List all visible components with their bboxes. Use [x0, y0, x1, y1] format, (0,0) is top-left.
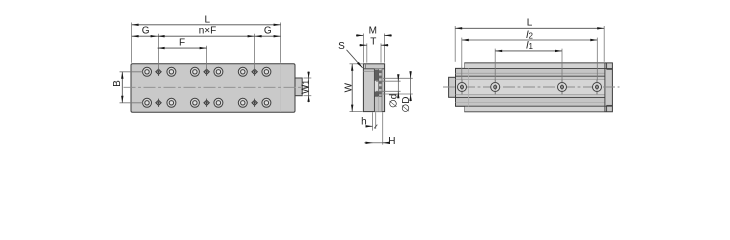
grease port diamond D3	[252, 100, 257, 105]
svg-text:T: T	[370, 36, 376, 47]
dimension lines, middle view	[347, 35, 411, 142]
dim h line	[367, 125, 373, 127]
ext M right	[383, 34, 385, 63]
dim G left line	[132, 35, 158, 37]
dim M line	[356, 34, 363, 36]
rail inner top	[456, 78, 605, 80]
counterbore hole A3	[190, 67, 199, 76]
section top plate line	[363, 68, 384, 70]
ext line row bottom	[120, 102, 144, 104]
ext line end cap	[280, 23, 282, 63]
labels, middle view	[338, 25, 412, 147]
thread fleck 3	[379, 81, 382, 84]
counterbore hole B3	[190, 98, 199, 107]
extension lines, right view	[455, 26, 604, 80]
ext D top	[383, 77, 413, 79]
ext W top	[350, 63, 363, 65]
grease port diamond T2	[204, 69, 209, 74]
centerline side view	[443, 86, 620, 88]
side-view body with notched left corners	[456, 63, 613, 112]
rail hole 4	[593, 83, 602, 92]
dim H line	[364, 142, 372, 144]
dim W1 line	[308, 72, 310, 103]
strip lower faint line	[378, 96, 380, 111]
ext line diamond T2	[206, 46, 208, 70]
rail hole 2	[491, 83, 500, 92]
hole 1 cross	[461, 80, 463, 94]
dim nxF line	[158, 35, 255, 37]
grease port diamond T3	[252, 69, 257, 74]
bore void	[375, 81, 379, 91]
counterbore wall upper	[375, 70, 379, 81]
ext line diamond T1	[158, 34, 160, 70]
ext l2 left	[461, 38, 463, 80]
hole 4 cross	[596, 80, 598, 94]
dim l1 line	[495, 50, 562, 52]
dim T line	[359, 44, 366, 46]
ext line tab top	[304, 77, 312, 79]
dim W1 arrow bottom	[307, 96, 309, 102]
thread fleck 1	[379, 70, 382, 73]
thread fleck 2	[379, 76, 382, 79]
counterbore hole A6	[262, 67, 271, 76]
dim d line	[397, 74, 399, 81]
counterbore hole A1	[143, 67, 152, 76]
ext H line	[382, 112, 384, 144]
dim G right line	[255, 35, 281, 37]
hole section strip left edge	[373, 69, 375, 112]
lower mid band	[456, 98, 605, 106]
top thin band	[465, 63, 605, 68]
ext T right	[380, 43, 382, 62]
hole section strip right edge	[381, 69, 383, 112]
dimension lines, left view	[122, 25, 309, 103]
ext D bottom	[383, 93, 413, 95]
dim B line	[121, 72, 123, 103]
ext W bottom	[350, 111, 363, 113]
end-cap line in plate	[280, 64, 282, 111]
ext line plate left	[131, 23, 133, 63]
ext L left	[454, 26, 456, 62]
leader S	[347, 50, 363, 68]
svg-text:n×F: n×F	[199, 26, 217, 37]
section inner step	[365, 64, 367, 69]
ext l1 right	[561, 49, 563, 80]
ext M left	[362, 34, 364, 63]
dim W1 arrow top	[307, 72, 309, 78]
top-view plate body	[131, 64, 295, 112]
section top inner line	[363, 70, 374, 72]
rail hole 1	[458, 83, 467, 92]
counterbore hole A2	[167, 67, 176, 76]
dim W line	[351, 64, 353, 112]
svg-text:G: G	[264, 26, 272, 37]
svg-text:W: W	[343, 82, 354, 92]
rail band light	[456, 79, 605, 94]
hole 2 cross	[494, 80, 496, 94]
dim D line	[410, 71, 412, 78]
ext d top	[376, 80, 401, 82]
centerline of top view	[124, 86, 310, 88]
labels, left view	[112, 15, 311, 94]
counterbore hole B6	[262, 98, 271, 107]
counterbore hole B4	[214, 98, 223, 107]
grease port diamond D2	[204, 100, 209, 105]
thread fleck 5	[379, 92, 382, 95]
left inner step	[468, 68, 470, 106]
hole section strip mid line	[378, 69, 380, 96]
ext l2 right	[596, 38, 598, 80]
svg-text:W1: W1	[300, 80, 311, 94]
counterbore hole B2	[167, 98, 176, 107]
svg-text:L: L	[205, 15, 211, 26]
svg-text:G: G	[142, 26, 150, 37]
labels, right view	[526, 17, 533, 51]
ext l1 left	[494, 49, 496, 80]
rail holes, side view	[458, 83, 602, 92]
section body	[363, 64, 384, 112]
ext h line	[372, 112, 374, 130]
svg-text:B: B	[112, 80, 123, 87]
bore line bottom	[374, 95, 382, 97]
svg-text:L: L	[527, 17, 533, 28]
body line y102	[456, 101, 605, 103]
end cap line	[604, 63, 606, 112]
svg-text:H: H	[388, 136, 395, 147]
ext h2 line	[375, 112, 377, 129]
rail end tab (right, W1)	[295, 78, 302, 96]
dimension lines, right view	[455, 28, 604, 51]
counterbore wall lower	[375, 92, 379, 96]
rail top edge	[456, 75, 605, 77]
dim L line	[132, 24, 281, 26]
ext L right	[603, 26, 605, 62]
ext line diamond T3	[254, 34, 256, 70]
body line y106	[456, 105, 613, 107]
thread fleck 4	[379, 86, 382, 89]
svg-text:∅D: ∅D	[401, 97, 412, 113]
ext line row top	[120, 71, 144, 73]
svg-text:F: F	[179, 38, 185, 49]
grease port diamond D1	[156, 100, 161, 105]
counterbore hole B5	[238, 98, 247, 107]
h oblique tick	[374, 125, 377, 129]
ext d bottom	[376, 90, 401, 92]
dim l2 line	[462, 39, 598, 41]
ext T left	[366, 43, 368, 62]
ext line tab bottom	[304, 95, 312, 97]
dim L side line	[455, 27, 604, 29]
svg-text:h: h	[361, 117, 367, 128]
counterbore hole A4	[214, 67, 223, 76]
grease port diamond T1	[156, 69, 161, 74]
rail inner bottom	[456, 94, 605, 96]
svg-text:∅d: ∅d	[389, 94, 400, 108]
holes: top row	[143, 67, 271, 76]
rail end tab left	[449, 77, 456, 97]
counterbore hole A5	[238, 67, 247, 76]
body line y68	[456, 67, 613, 69]
svg-text:M: M	[369, 25, 377, 36]
dim F line	[158, 47, 207, 49]
counterbore hole B1	[143, 98, 152, 107]
svg-text:l1: l1	[526, 40, 533, 52]
hole 3 cross	[561, 80, 563, 94]
rail hole 3	[558, 83, 567, 92]
end bracket top	[607, 68, 613, 70]
body line y73	[456, 72, 605, 74]
end bracket bottom	[607, 104, 613, 106]
bottom thin band	[465, 107, 605, 112]
extension lines, left view	[120, 23, 312, 103]
rail bottom edge	[456, 96, 605, 98]
hole section strip bg	[374, 69, 382, 112]
extension lines, middle view	[350, 34, 413, 145]
svg-text:S: S	[338, 41, 345, 52]
upper mid band	[456, 69, 605, 76]
